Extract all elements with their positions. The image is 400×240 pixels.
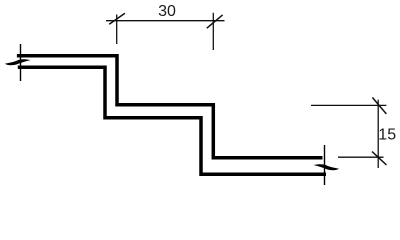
dim 15: dimension line [377,100,379,168]
dim 15: bottom oblique tick [372,152,387,166]
dim 15: bottom extension line [338,156,384,158]
right break mark [313,164,339,170]
dim 30: right oblique tick [207,15,223,28]
left cut line [20,44,22,81]
dim 15: top oblique tick [372,98,386,114]
right cut line [324,145,326,185]
dim 15: top extension line [311,104,386,106]
dim 30: left extension line [116,15,118,45]
svg-text:15: 15 [378,127,396,144]
svg-text:30: 30 [158,3,176,20]
dim 30: dimension line [106,20,225,22]
dim 30: right extension line [212,13,214,50]
upper step polyline [17,56,323,158]
lower step polyline [18,67,326,174]
dim 30: left oblique tick [109,13,125,24]
left break mark [5,59,31,65]
